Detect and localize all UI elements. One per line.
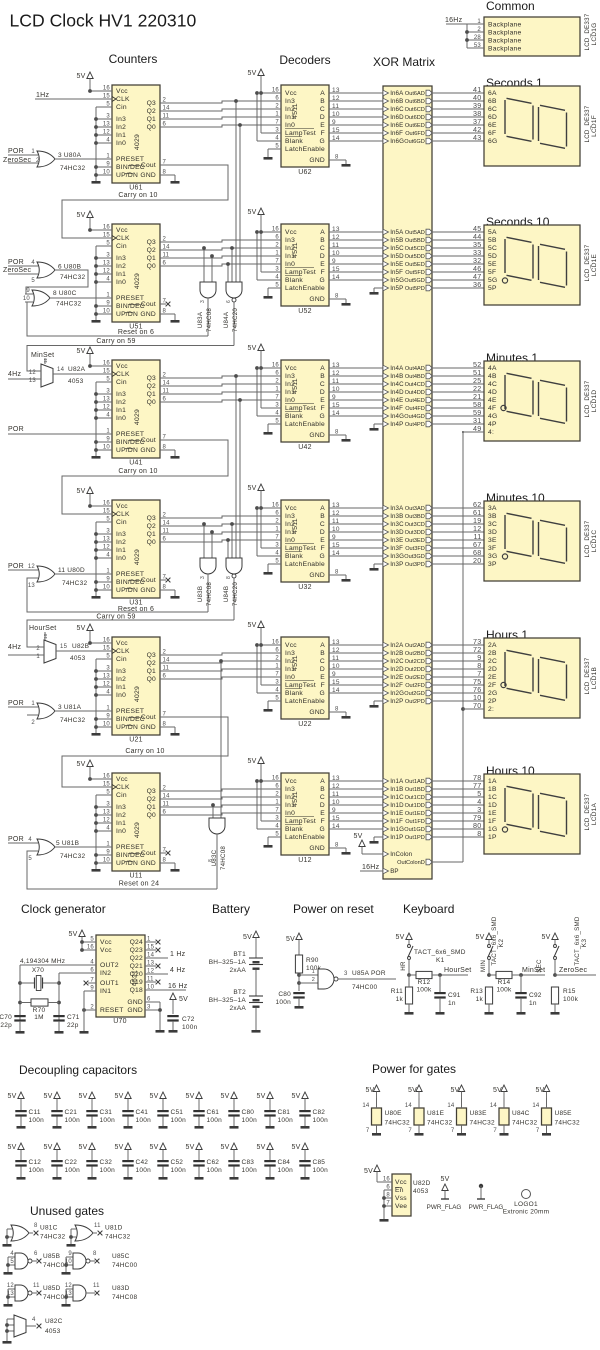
svg-text:100k: 100k [416, 987, 432, 994]
svg-text:In2P: In2P [390, 698, 403, 705]
svg-text:2xAA: 2xAA [229, 1005, 246, 1012]
svg-text:11: 11 [332, 655, 339, 662]
svg-text:6B: 6B [488, 98, 497, 105]
svg-text:2P: 2P [488, 698, 497, 705]
svg-text:R15: R15 [563, 988, 576, 995]
svg-text:TACT_6x6_SMD: TACT_6x6_SMD [414, 949, 466, 956]
svg-text:Out3BD: Out3BD [405, 514, 425, 520]
svg-text:U83E: U83E [470, 1110, 488, 1117]
svg-text:Q2: Q2 [147, 383, 156, 390]
svg-text:100n: 100n [136, 1117, 152, 1124]
svg-text:Out2FD: Out2FD [405, 683, 425, 689]
svg-text:9: 9 [332, 534, 336, 541]
svg-text:HourSet: HourSet [29, 625, 56, 632]
svg-text:B: B [320, 373, 325, 380]
svg-text:D: D [320, 529, 325, 536]
svg-text:100n: 100n [276, 999, 292, 1006]
svg-text:U84C: U84C [512, 1110, 530, 1117]
svg-text:Vcc: Vcc [285, 505, 297, 512]
svg-text:74HC32: 74HC32 [60, 717, 85, 724]
svg-text:74HC00: 74HC00 [112, 1262, 137, 1269]
svg-text:74HC32: 74HC32 [60, 853, 85, 860]
svg-text:5V: 5V [149, 1144, 158, 1151]
svg-text:13: 13 [332, 87, 340, 94]
svg-text:LatchEnable: LatchEnable [285, 561, 325, 568]
svg-text:C41: C41 [136, 1109, 149, 1116]
svg-text:IN1: IN1 [100, 988, 111, 995]
svg-text:74HC08: 74HC08 [206, 308, 213, 333]
svg-text:74HC32: 74HC32 [40, 1234, 65, 1241]
svg-text:11: 11 [332, 242, 339, 249]
svg-text:Vcc: Vcc [116, 227, 128, 234]
svg-text:5V: 5V [247, 209, 256, 216]
svg-text:74HC32: 74HC32 [555, 1120, 580, 1127]
svg-text:2F: 2F [488, 682, 496, 689]
svg-text:10: 10 [65, 1259, 73, 1265]
svg-text:Out3FD: Out3FD [405, 546, 425, 552]
svg-text:Out4GD: Out4GD [404, 414, 425, 420]
svg-text:2E: 2E [488, 674, 497, 681]
svg-text:In2: In2 [116, 124, 126, 131]
svg-text:4053: 4053 [413, 1188, 429, 1195]
svg-text:In5E: In5E [390, 261, 403, 268]
svg-text:3D: 3D [488, 529, 497, 536]
svg-text:100n: 100n [100, 1117, 116, 1124]
svg-text:In5D: In5D [390, 253, 404, 260]
svg-text:Out6CD: Out6CD [405, 107, 425, 113]
svg-text:GND: GND [127, 999, 143, 1006]
svg-text:5V: 5V [247, 758, 256, 765]
svg-text:5V: 5V [220, 1093, 229, 1100]
svg-text:Cout: Cout [141, 577, 156, 584]
svg-text:LCD Clock HV1 220310: LCD Clock HV1 220310 [10, 11, 197, 31]
svg-text:5 U81B: 5 U81B [56, 840, 79, 847]
svg-text:74HC32: 74HC32 [60, 274, 85, 281]
svg-text:LatchEnable: LatchEnable [285, 834, 325, 841]
svg-text:GND: GND [309, 296, 325, 303]
svg-text:9: 9 [332, 671, 336, 678]
svg-text:4029: 4029 [134, 409, 141, 425]
svg-text:Out2GD: Out2GD [404, 691, 425, 697]
svg-text:13: 13 [332, 502, 340, 509]
svg-text:In0: In0 [116, 415, 126, 422]
svg-text:14: 14 [490, 1103, 498, 1109]
svg-text:In2: In2 [116, 399, 126, 406]
svg-text:Out1AD: Out1AD [405, 779, 425, 785]
svg-text:5V: 5V [220, 1144, 229, 1151]
svg-text:Out4PD: Out4PD [405, 422, 425, 428]
svg-text:F: F [321, 130, 325, 137]
svg-text:InColon: InColon [390, 851, 412, 858]
svg-text:Blank: Blank [285, 553, 303, 560]
svg-text:In1G: In1G [390, 826, 404, 833]
svg-text:12: 12 [332, 370, 340, 377]
svg-text:In4P: In4P [390, 421, 403, 428]
svg-text:C51: C51 [171, 1109, 184, 1116]
svg-text:C11: C11 [29, 1109, 41, 1116]
svg-text:4053: 4053 [70, 655, 86, 662]
svg-text:15: 15 [332, 402, 340, 409]
svg-text:R13: R13 [470, 988, 483, 995]
svg-text:In6D: In6D [390, 114, 404, 121]
svg-text:Blank: Blank [285, 413, 303, 420]
svg-text:In1E: In1E [390, 810, 403, 817]
svg-text:Vcc: Vcc [285, 90, 297, 97]
svg-text:U83C: U83C [211, 849, 218, 866]
svg-text:Q3: Q3 [147, 375, 156, 382]
svg-text:POR: POR [8, 563, 24, 570]
svg-text:C31: C31 [100, 1109, 113, 1116]
svg-text:5V: 5V [78, 1093, 87, 1100]
svg-text:9: 9 [68, 1251, 72, 1257]
svg-text:100n: 100n [313, 1167, 329, 1174]
svg-text:Cin: Cin [116, 656, 127, 663]
svg-text:9: 9 [332, 258, 336, 265]
svg-text:Q3: Q3 [147, 100, 156, 107]
svg-text:1n: 1n [529, 1000, 537, 1007]
svg-text:4C: 4C [488, 381, 497, 388]
svg-text:2A: 2A [488, 642, 497, 649]
svg-text:12: 12 [28, 564, 36, 570]
svg-text:4511: 4511 [292, 242, 299, 258]
svg-text:2C: 2C [488, 658, 497, 665]
svg-text:8: 8 [93, 1251, 97, 1257]
svg-text:F: F [321, 818, 325, 825]
svg-text:74HC20: 74HC20 [232, 582, 239, 607]
svg-text:In3C: In3C [390, 521, 404, 528]
svg-text:2G: 2G [488, 690, 497, 697]
svg-text:5V: 5V [395, 934, 404, 941]
svg-text:GND: GND [140, 311, 156, 318]
svg-text:In2C: In2C [390, 658, 404, 665]
svg-text:E: E [320, 397, 325, 404]
svg-text:74HC08: 74HC08 [206, 582, 213, 607]
svg-text:F: F [321, 545, 325, 552]
svg-text:7: 7 [536, 1128, 540, 1134]
svg-text:Out5ED: Out5ED [405, 262, 425, 268]
svg-text:Q1: Q1 [147, 804, 156, 811]
svg-text:Out2PD: Out2PD [405, 699, 425, 705]
svg-text:C80: C80 [278, 991, 291, 998]
svg-text:6A: 6A [488, 90, 497, 97]
svg-text:BT2: BT2 [233, 989, 246, 996]
svg-text:C: C [320, 658, 325, 665]
svg-text:HourSet: HourSet [444, 967, 471, 974]
svg-text:CLK: CLK [116, 648, 130, 655]
svg-text:Counters: Counters [109, 52, 158, 66]
svg-text:5V: 5V [114, 1144, 123, 1151]
svg-text:11: 11 [332, 791, 339, 798]
svg-text:4D: 4D [488, 389, 497, 396]
svg-text:LampTest: LampTest [285, 130, 316, 137]
svg-text:1B: 1B [488, 786, 497, 793]
svg-text:GND: GND [127, 1007, 143, 1014]
svg-text:In1: In1 [116, 684, 126, 691]
svg-text:In6E: In6E [390, 122, 403, 129]
svg-text:74HC32: 74HC32 [62, 580, 87, 587]
svg-text:Unused gates: Unused gates [30, 1204, 104, 1218]
svg-text:In6B: In6B [390, 98, 403, 105]
svg-text:In4G: In4G [390, 413, 404, 420]
svg-text:8: 8 [226, 576, 232, 579]
svg-text:Out5BD: Out5BD [405, 238, 425, 244]
svg-text:LCD1F: LCD1F [591, 115, 598, 137]
svg-text:Out4FD: Out4FD [405, 406, 425, 412]
svg-text:Q1: Q1 [147, 116, 156, 123]
svg-text:In5C: In5C [390, 245, 404, 252]
svg-text:4E: 4E [488, 397, 497, 404]
svg-text:In0: In0 [116, 555, 126, 562]
svg-text:12: 12 [332, 510, 340, 517]
svg-text:LCD_DE337: LCD_DE337 [584, 380, 591, 417]
svg-text:5V: 5V [247, 622, 256, 629]
svg-text:Out1BD: Out1BD [405, 787, 425, 793]
svg-text:13: 13 [28, 583, 36, 589]
svg-text:LCD_DE337: LCD_DE337 [584, 793, 591, 830]
svg-text:11: 11 [43, 358, 48, 363]
svg-text:Vcc: Vcc [395, 1179, 407, 1186]
svg-text:Blank: Blank [285, 826, 303, 833]
svg-text:LCD1B: LCD1B [591, 667, 598, 689]
svg-text:5V: 5V [365, 1087, 374, 1094]
svg-text:2B: 2B [488, 650, 497, 657]
svg-text:U21: U21 [129, 737, 143, 744]
svg-text:7: 7 [451, 1128, 455, 1134]
svg-text:Q3: Q3 [147, 239, 156, 246]
svg-text:Out2AD: Out2AD [405, 643, 425, 649]
svg-text:In2: In2 [116, 676, 126, 683]
svg-text:GND: GND [309, 845, 325, 852]
svg-text:U81E: U81E [427, 1110, 445, 1117]
svg-text:E: E [320, 810, 325, 817]
svg-text:74HC08: 74HC08 [220, 846, 227, 871]
svg-text:Extronic 20mm: Extronic 20mm [503, 1209, 550, 1216]
svg-text:G: G [320, 690, 325, 697]
svg-text:Out2DD: Out2DD [405, 667, 425, 673]
svg-text:In1: In1 [116, 407, 126, 414]
svg-text:LCD1G: LCD1G [591, 23, 598, 46]
svg-text:4511: 4511 [292, 791, 299, 807]
svg-text:5V: 5V [541, 934, 550, 941]
svg-text:C71: C71 [67, 1014, 80, 1021]
svg-text:In2E: In2E [390, 674, 403, 681]
svg-text:C22: C22 [65, 1159, 78, 1166]
svg-text:In3E: In3E [390, 537, 403, 544]
svg-text:BP: BP [390, 868, 398, 875]
svg-text:Backplane: Backplane [488, 22, 522, 29]
svg-text:Out6GD: Out6GD [404, 139, 425, 145]
svg-text:4521: 4521 [132, 970, 139, 986]
svg-text:74HC20: 74HC20 [232, 308, 239, 333]
svg-text:11: 11 [332, 518, 339, 525]
svg-text:4 Hz: 4 Hz [170, 967, 186, 974]
svg-text:8: 8 [477, 829, 481, 838]
svg-text:5V: 5V [7, 1144, 16, 1151]
svg-text:U22: U22 [298, 721, 312, 728]
svg-text:2xAA: 2xAA [229, 967, 246, 974]
svg-text:C91: C91 [448, 992, 461, 999]
svg-text:20: 20 [473, 556, 482, 565]
svg-text:A: A [320, 90, 325, 97]
svg-text:Power for gates: Power for gates [372, 1062, 456, 1076]
svg-text:5V: 5V [7, 1093, 16, 1100]
svg-text:In3: In3 [116, 116, 126, 123]
svg-text:4F: 4F [488, 405, 496, 412]
svg-text:Vcc: Vcc [116, 88, 128, 95]
svg-text:K3: K3 [581, 939, 588, 948]
svg-text:U11: U11 [129, 873, 142, 880]
svg-text:14: 14 [532, 1103, 540, 1109]
svg-text:16Hz: 16Hz [362, 864, 380, 871]
svg-text:4A: 4A [488, 365, 497, 372]
svg-text:Out5DD: Out5DD [405, 254, 425, 260]
svg-text:15: 15 [332, 127, 340, 134]
svg-text:SEC: SEC [536, 959, 543, 973]
svg-text:12: 12 [7, 1283, 15, 1289]
svg-text:In4F: In4F [390, 405, 403, 412]
svg-text:LampTest: LampTest [285, 405, 316, 412]
svg-text:Out3ED: Out3ED [405, 538, 425, 544]
svg-text:D: D [320, 253, 325, 260]
svg-text:Carry on 10: Carry on 10 [118, 192, 157, 199]
svg-text:G: G [320, 413, 325, 420]
svg-text:1C: 1C [488, 794, 497, 801]
svg-text:In5A: In5A [390, 229, 404, 236]
svg-text:100n: 100n [313, 1117, 329, 1124]
svg-text:Decoupling capacitors: Decoupling capacitors [19, 1063, 137, 1077]
svg-text:Q2: Q2 [147, 796, 156, 803]
svg-text:Q2: Q2 [147, 523, 156, 530]
svg-text:5: 5 [28, 856, 32, 862]
svg-text:Cout: Cout [141, 162, 156, 169]
svg-text:15: 15 [332, 266, 340, 273]
svg-text:6E: 6E [488, 122, 497, 129]
svg-text:Cout: Cout [141, 850, 156, 857]
svg-text:Vcc: Vcc [285, 229, 297, 236]
svg-text:In3: In3 [116, 668, 126, 675]
svg-text:Out6AD: Out6AD [405, 91, 425, 97]
svg-text:6: 6 [226, 300, 232, 303]
svg-text:12: 12 [65, 1283, 73, 1289]
svg-text:F: F [321, 269, 325, 276]
svg-text:E: E [320, 674, 325, 681]
svg-text:100n: 100n [242, 1117, 258, 1124]
svg-text:In0: In0 [285, 397, 295, 404]
svg-text:1k: 1k [396, 996, 404, 1003]
svg-text:5V: 5V [353, 833, 362, 840]
svg-text:Out3DD: Out3DD [405, 530, 425, 536]
svg-text:Vcc: Vcc [285, 642, 297, 649]
svg-text:14: 14 [332, 823, 340, 830]
svg-text:15: 15 [60, 644, 68, 650]
svg-text:Power on reset: Power on reset [293, 902, 374, 916]
svg-text:9: 9 [332, 807, 336, 814]
svg-text:LampTest: LampTest [285, 682, 316, 689]
svg-text:R14: R14 [498, 979, 511, 986]
svg-text:3A: 3A [488, 505, 497, 512]
svg-text:13: 13 [332, 226, 340, 233]
svg-text:In5G: In5G [390, 277, 404, 284]
svg-text:1Hz: 1Hz [36, 92, 49, 99]
svg-text:5V: 5V [76, 73, 85, 80]
svg-text:In3P: In3P [390, 561, 403, 568]
svg-text:CLK: CLK [116, 784, 130, 791]
svg-text:GND: GND [309, 157, 325, 164]
svg-text:E: E [320, 537, 325, 544]
svg-text:TACT_6x6_SMD: TACT_6x6_SMD [574, 916, 581, 966]
svg-text:12: 12 [332, 783, 340, 790]
svg-text:K1: K1 [436, 957, 445, 964]
svg-text:14: 14 [332, 410, 340, 417]
svg-text:POR: POR [8, 700, 24, 707]
svg-text:Out5FD: Out5FD [405, 270, 425, 276]
svg-text:4: 4 [32, 1317, 36, 1323]
svg-text:C32: C32 [100, 1159, 113, 1166]
svg-text:10: 10 [23, 296, 31, 302]
svg-text:In6F: In6F [390, 130, 403, 137]
svg-text:GND: GND [309, 432, 325, 439]
svg-text:B: B [320, 513, 325, 520]
svg-text:C70: C70 [0, 1014, 12, 1021]
svg-text:Out6ED: Out6ED [405, 123, 425, 129]
svg-text:In3B: In3B [390, 513, 403, 520]
svg-text:RESET: RESET [100, 1007, 124, 1014]
svg-text:22p: 22p [67, 1022, 79, 1029]
svg-text:3G: 3G [488, 553, 497, 560]
svg-text:5V: 5V [247, 345, 256, 352]
svg-text:U52: U52 [298, 308, 312, 315]
svg-text:11: 11 [93, 1283, 100, 1289]
svg-text:BT1: BT1 [233, 951, 246, 958]
svg-text:4511: 4511 [292, 378, 299, 394]
svg-text:53: 53 [474, 43, 482, 49]
svg-text:3: 3 [344, 971, 348, 977]
svg-text:HR: HR [400, 961, 407, 971]
svg-text:1M: 1M [34, 1014, 44, 1021]
svg-text:Out1PD: Out1PD [405, 835, 425, 841]
svg-text:3B: 3B [488, 513, 497, 520]
svg-text:C: C [320, 245, 325, 252]
svg-text:U83A: U83A [197, 311, 204, 328]
svg-text:5V: 5V [450, 1087, 459, 1094]
svg-text:100n: 100n [65, 1117, 81, 1124]
svg-text:B: B [320, 650, 325, 657]
svg-text:Out1ED: Out1ED [405, 811, 425, 817]
svg-text:A: A [320, 778, 325, 785]
svg-text:In2A: In2A [390, 642, 404, 649]
svg-text:5V: 5V [43, 1144, 52, 1151]
svg-text:1F: 1F [488, 818, 496, 825]
svg-text:In1A: In1A [390, 778, 404, 785]
svg-text:13: 13 [65, 1291, 73, 1297]
svg-text:74HC32: 74HC32 [105, 1234, 130, 1241]
svg-text:74HC32: 74HC32 [470, 1120, 495, 1127]
svg-text:100n: 100n [242, 1167, 258, 1174]
svg-text:12: 12 [332, 647, 340, 654]
svg-text:Vcc: Vcc [285, 365, 297, 372]
svg-text:GND: GND [309, 709, 325, 716]
svg-text:Vcc: Vcc [116, 503, 128, 510]
svg-text:X70: X70 [32, 967, 44, 974]
svg-text:In2: In2 [116, 539, 126, 546]
svg-text:C: C [320, 794, 325, 801]
svg-text:Out4ED: Out4ED [405, 398, 425, 404]
svg-text:PWR_FLAG: PWR_FLAG [427, 1204, 462, 1211]
svg-text:Carry on 10: Carry on 10 [125, 748, 164, 755]
svg-text:C72: C72 [182, 1016, 195, 1023]
svg-text:5C: 5C [488, 245, 497, 252]
svg-text:In2: In2 [116, 263, 126, 270]
